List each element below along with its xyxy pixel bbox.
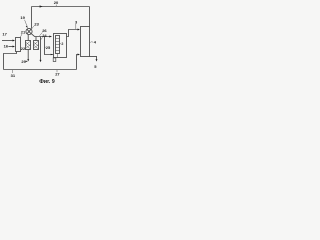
arrow wire 16 bbox=[13, 46, 16, 48]
stub box C top bbox=[35, 37, 37, 41]
svg-text:4: 4 bbox=[94, 39, 97, 44]
arrow into column bottom-left bbox=[78, 54, 81, 56]
felt box C bbox=[34, 41, 39, 50]
arrow leader 29 label bbox=[26, 61, 28, 62]
arrow wire 5 tip bbox=[96, 59, 98, 61]
tank 18 outer bbox=[54, 34, 67, 58]
wire valve to tank 18 bbox=[32, 34, 52, 37]
svg-text:5: 5 bbox=[94, 64, 97, 69]
arrow into column left bbox=[78, 29, 81, 31]
arrow on wire 20 bbox=[40, 5, 43, 7]
bottom wire 27 bbox=[4, 69, 77, 71]
felt box 22 bbox=[26, 41, 31, 50]
leader 19 bbox=[25, 20, 27, 26]
wire 19 vertical into valve bbox=[31, 7, 33, 29]
wire 25 down and into tank bbox=[45, 37, 54, 55]
wire top-right down to column 4 bbox=[89, 7, 91, 27]
svg-text:31: 31 bbox=[11, 73, 16, 78]
leader 4 squiggle bbox=[90, 41, 93, 44]
leader 3 bbox=[75, 24, 77, 29]
leader 23 bbox=[32, 25, 34, 28]
tank 18 inner bottom stub bbox=[57, 54, 59, 58]
arrow wire 29 tip bbox=[27, 59, 29, 61]
stub valve to box B bbox=[27, 35, 29, 41]
svg-text:19: 19 bbox=[20, 15, 25, 20]
tank 18 inner element bbox=[56, 36, 60, 54]
wire 20 top line bbox=[32, 6, 90, 8]
svg-text:17: 17 bbox=[2, 31, 7, 36]
leader 31 bbox=[12, 70, 14, 73]
svg-text:21: 21 bbox=[21, 30, 26, 35]
svg-text:22: 22 bbox=[21, 46, 26, 51]
valve 23 circle bbox=[26, 28, 32, 34]
box A 21 bbox=[16, 38, 21, 52]
leader 25 dash bbox=[45, 46, 46, 48]
svg-text:23: 23 bbox=[34, 21, 39, 26]
wire 3 tank to column bbox=[67, 30, 79, 37]
riser to column bottom bbox=[77, 55, 79, 70]
svg-text:25: 25 bbox=[46, 45, 51, 50]
wire 5 outlet bbox=[90, 56, 97, 60]
column 4 bbox=[81, 27, 90, 57]
svg-text:3: 3 bbox=[75, 19, 78, 24]
wire 29 drop bbox=[27, 50, 29, 60]
wire 16 bbox=[8, 46, 13, 48]
arrow wire 24 tip bbox=[40, 60, 42, 62]
svg-text:27: 27 bbox=[55, 71, 60, 76]
svg-text:24: 24 bbox=[42, 33, 47, 38]
arrow leader 19 bbox=[26, 26, 28, 29]
arrow wire 17 bbox=[13, 40, 16, 42]
leader 2 dash bbox=[60, 43, 61, 45]
svg-text:2: 2 bbox=[61, 42, 63, 46]
wire box A to bottom bbox=[4, 52, 17, 70]
arrow on wire 25 bbox=[51, 54, 53, 56]
svg-text:16: 16 bbox=[4, 43, 9, 48]
leader 20 bbox=[55, 5, 57, 6]
leader 24 bbox=[41, 37, 43, 39]
leader 26 bbox=[39, 32, 42, 35]
leader 27 bbox=[56, 70, 58, 72]
wire 17 bbox=[2, 40, 14, 42]
svg-text:29: 29 bbox=[21, 59, 26, 64]
tank 18 bottom stub box bbox=[53, 58, 56, 62]
wire 24 drop bbox=[40, 37, 42, 61]
leader 21 bbox=[20, 34, 22, 37]
svg-text:20: 20 bbox=[54, 0, 59, 5]
svg-text:Фиг. 9: Фиг. 9 bbox=[39, 79, 55, 85]
arrow into tank 18 bbox=[49, 36, 52, 38]
